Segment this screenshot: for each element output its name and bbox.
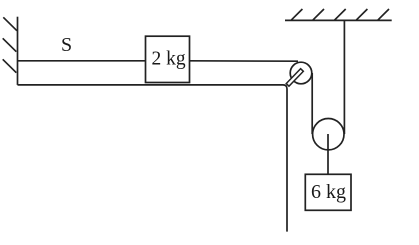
block 2 kg [146,36,190,82]
ceiling hatch 4 [356,9,367,20]
svg-text:2 kg: 2 kg [152,49,186,70]
ceiling hatch 2 [313,9,324,20]
table surface [18,85,288,232]
movable pulley P2 [313,119,344,150]
block 6 kg [305,174,351,210]
wall hatch 2 [3,38,17,51]
wall hatch 3 [3,59,17,72]
string (block to corner pulley) [190,60,299,62]
corner pulley P1 [290,62,312,84]
svg-text:S: S [61,34,72,56]
ceiling hatch 1 [291,9,302,20]
wall hatch 1 [3,17,17,30]
ceiling hatch 5 [378,9,389,20]
ceiling hatch 3 [334,9,345,20]
string (ceiling to movable pulley) [343,21,345,134]
hanger rod (pulley axle to 6 kg block) [327,134,329,174]
string (corner pulley down to movable pulley) [311,73,313,134]
svg-text:6 kg: 6 kg [311,181,346,203]
spring S (wall to block) [18,60,146,62]
wall (left, vertical) [17,17,19,85]
ceiling [285,19,392,21]
pulley P1 bracket [286,69,303,87]
